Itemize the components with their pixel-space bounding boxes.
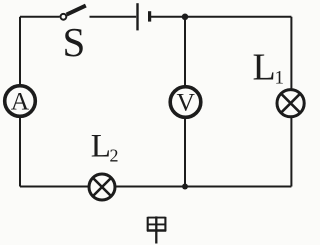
voltmeter V1 — [170, 87, 201, 118]
ammeter A1 — [5, 86, 36, 117]
lamp L1 — [277, 90, 304, 117]
battery long plate — [136, 3, 138, 30]
battery short plate — [148, 11, 151, 21]
label L1 — [253, 47, 285, 89]
wire battery to top-right corner — [151, 16, 291, 18]
label L2 — [91, 128, 119, 165]
wire right vertical upper — [290, 17, 292, 90]
switch S pivot — [61, 14, 67, 20]
svg-text:1: 1 — [275, 68, 285, 89]
wire left vertical upper — [19, 17, 21, 86]
wire voltmeter branch upper — [184, 17, 186, 87]
wire bottom-left horizontal — [20, 186, 89, 188]
wire right vertical lower — [290, 118, 292, 187]
wire bottom-right horizontal — [115, 186, 291, 188]
svg-text:A: A — [11, 87, 30, 116]
wire switch to battery — [90, 16, 137, 18]
svg-text:L: L — [253, 47, 276, 89]
node junction bottom — [182, 184, 188, 190]
wire voltmeter branch lower — [184, 117, 186, 186]
wire left vertical lower — [19, 116, 21, 186]
wire top-left horizontal — [20, 16, 60, 18]
svg-text:V: V — [176, 87, 195, 116]
svg-text:S: S — [63, 19, 86, 65]
switch S lever — [67, 6, 86, 15]
node junction top — [182, 13, 189, 20]
lamp L2 — [89, 174, 115, 200]
svg-text:L: L — [91, 128, 111, 164]
caption jia — [147, 216, 166, 243]
svg-text:2: 2 — [110, 146, 119, 166]
